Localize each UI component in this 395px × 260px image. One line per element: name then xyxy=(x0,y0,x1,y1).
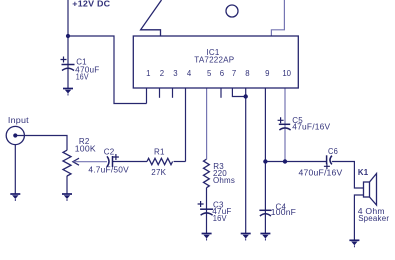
svg-text:1: 1 xyxy=(146,69,150,78)
svg-text:16V: 16V xyxy=(76,72,89,81)
svg-text:8: 8 xyxy=(245,69,249,78)
svg-text:Ohms: Ohms xyxy=(213,176,235,185)
svg-text:10: 10 xyxy=(282,69,291,78)
svg-text:2: 2 xyxy=(160,69,164,78)
svg-text:16V: 16V xyxy=(213,214,227,223)
svg-text:6: 6 xyxy=(220,69,224,78)
svg-text:470uF/16V: 470uF/16V xyxy=(299,168,343,177)
svg-text:C2: C2 xyxy=(104,148,115,157)
svg-text:100K: 100K xyxy=(75,145,96,154)
svg-text:Input: Input xyxy=(8,116,30,125)
svg-text:7: 7 xyxy=(232,69,236,78)
svg-text:4: 4 xyxy=(187,69,192,78)
svg-text:Speaker: Speaker xyxy=(358,214,389,223)
svg-text:+12V DC: +12V DC xyxy=(72,0,110,8)
svg-text:27K: 27K xyxy=(151,168,166,177)
svg-text:K1: K1 xyxy=(358,168,369,177)
svg-text:TA7222AP: TA7222AP xyxy=(194,56,234,65)
svg-text:C6: C6 xyxy=(328,147,338,156)
svg-text:9: 9 xyxy=(265,69,269,78)
svg-text:100nF: 100nF xyxy=(271,208,296,217)
svg-text:47uF/16V: 47uF/16V xyxy=(292,123,330,132)
svg-text:4.7uF/50V: 4.7uF/50V xyxy=(88,166,129,175)
svg-text:5: 5 xyxy=(207,69,212,78)
svg-text:R1: R1 xyxy=(154,148,165,157)
svg-text:3: 3 xyxy=(173,69,177,78)
